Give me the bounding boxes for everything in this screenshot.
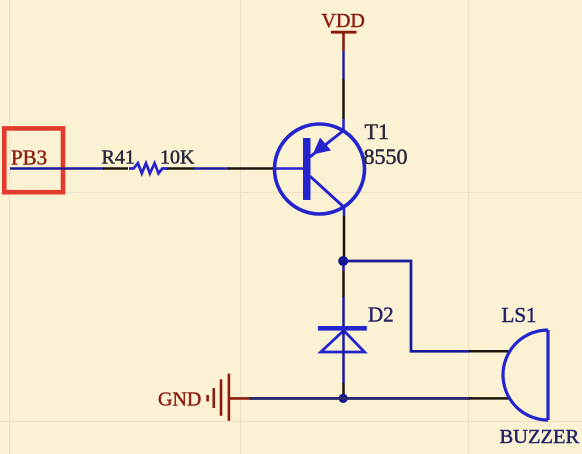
node PB3 (port box): [4, 128, 63, 192]
svg-text:LS1: LS1: [502, 303, 537, 327]
svg-text:BUZZER: BUZZER: [500, 426, 580, 448]
svg-text:10K: 10K: [160, 147, 195, 169]
base bar: [303, 138, 311, 200]
diode D2 pin top: [342, 264, 345, 271]
base pin: [228, 167, 274, 170]
diode D2 pin bottom: [342, 352, 345, 383]
pin 2: [469, 397, 511, 400]
svg-text:PB3: PB3: [11, 146, 47, 170]
collector pin wire: [343, 206, 346, 216]
wire GND rail: [250, 397, 471, 400]
transistor T1 (PNP 8550): [228, 124, 365, 214]
collector line: [310, 176, 344, 207]
power VDD: [322, 10, 365, 51]
svg-text:8550: 8550: [364, 144, 408, 169]
wire resistor to transistor: [193, 167, 229, 169]
wire junction to buzzer (branch): [343, 261, 470, 351]
svg-text:R41: R41: [102, 147, 135, 169]
junction dot (ground node): [339, 394, 348, 403]
emitter pin wire: [342, 79, 345, 119]
emitter line: [310, 131, 343, 157]
ground GND: [158, 374, 251, 421]
wire PB3 to resistor: [10, 167, 104, 169]
svg-text:D2: D2: [368, 303, 394, 327]
wire VDD to emitter: [342, 51, 344, 79]
svg-text:T1: T1: [365, 119, 389, 144]
svg-text:GND: GND: [158, 389, 201, 411]
diode D2: [318, 326, 367, 352]
resistor R41: [103, 163, 194, 173]
emitter arrow: [314, 139, 330, 154]
junction dot (collector node): [338, 256, 348, 266]
buzzer LS1: [469, 330, 548, 420]
pin 1: [469, 350, 511, 353]
body circle: [275, 124, 365, 214]
body: [503, 330, 548, 420]
svg-text:VDD: VDD: [322, 10, 365, 32]
